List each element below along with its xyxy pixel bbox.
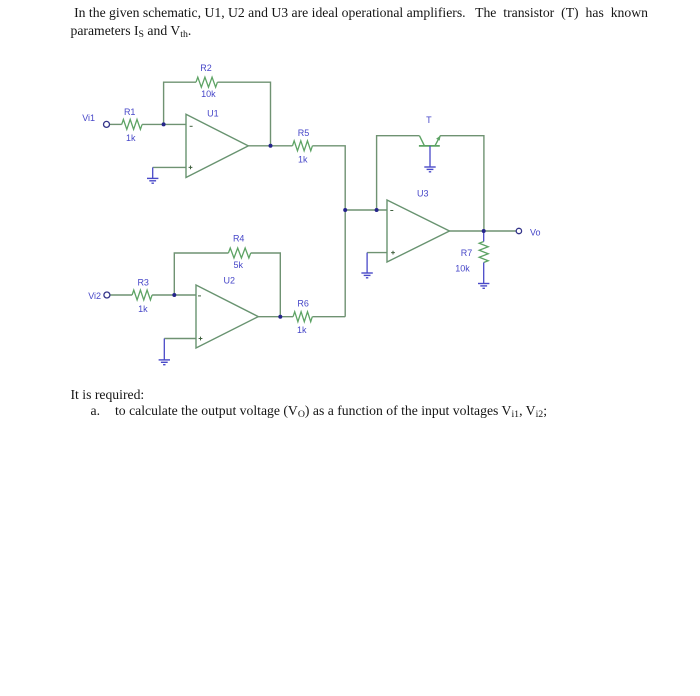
- svg-text:10k: 10k: [201, 89, 216, 99]
- svg-text:1k: 1k: [298, 154, 308, 164]
- svg-text:R4: R4: [233, 233, 245, 243]
- svg-text:1k: 1k: [297, 325, 307, 335]
- svg-text:Vo: Vo: [530, 228, 541, 238]
- svg-text:Vi1: Vi1: [82, 113, 95, 123]
- svg-text:1k: 1k: [138, 304, 148, 314]
- svg-text:Vi2: Vi2: [88, 291, 101, 301]
- svg-text:5k: 5k: [234, 260, 244, 270]
- svg-text:10k: 10k: [455, 264, 470, 274]
- svg-text:R1: R1: [124, 107, 136, 117]
- svg-text:U2: U2: [224, 275, 236, 285]
- svg-text:R3: R3: [137, 278, 149, 288]
- svg-text:R2: R2: [200, 63, 212, 73]
- svg-text:U3: U3: [417, 189, 429, 199]
- svg-text:R6: R6: [297, 299, 309, 309]
- svg-text:U1: U1: [207, 109, 219, 119]
- svg-text:1k: 1k: [126, 133, 136, 143]
- svg-text:T: T: [426, 115, 432, 125]
- svg-text:R7: R7: [461, 248, 473, 258]
- svg-text:R5: R5: [298, 128, 310, 138]
